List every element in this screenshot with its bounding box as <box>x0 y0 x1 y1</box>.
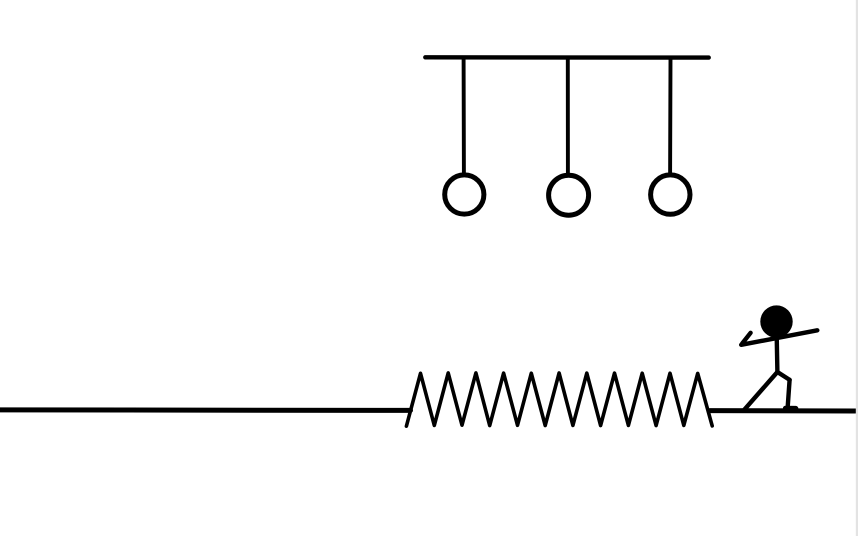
stick figure right shin <box>788 380 790 408</box>
stick figure left hand flick <box>742 333 750 344</box>
ground line left segment <box>0 407 411 413</box>
pendulum string 1 <box>462 59 466 174</box>
pendulum bob 3 <box>651 175 690 214</box>
stick figure right thigh <box>777 372 789 380</box>
spring (zigzag) <box>406 373 712 426</box>
pendulum string 3 <box>668 59 672 175</box>
ground line right segment <box>710 408 855 413</box>
faint right edge line <box>856 0 858 536</box>
stick figure left leg <box>744 372 777 410</box>
pendulum bob 1 <box>445 175 484 214</box>
stick figure head <box>760 305 792 337</box>
stick figure arms <box>741 330 817 345</box>
stick figure right foot <box>786 406 796 411</box>
top support bar <box>425 55 708 60</box>
pendulum string 2 <box>566 59 570 176</box>
pendulum bob 2 <box>549 175 589 215</box>
stick figure torso <box>774 331 779 372</box>
